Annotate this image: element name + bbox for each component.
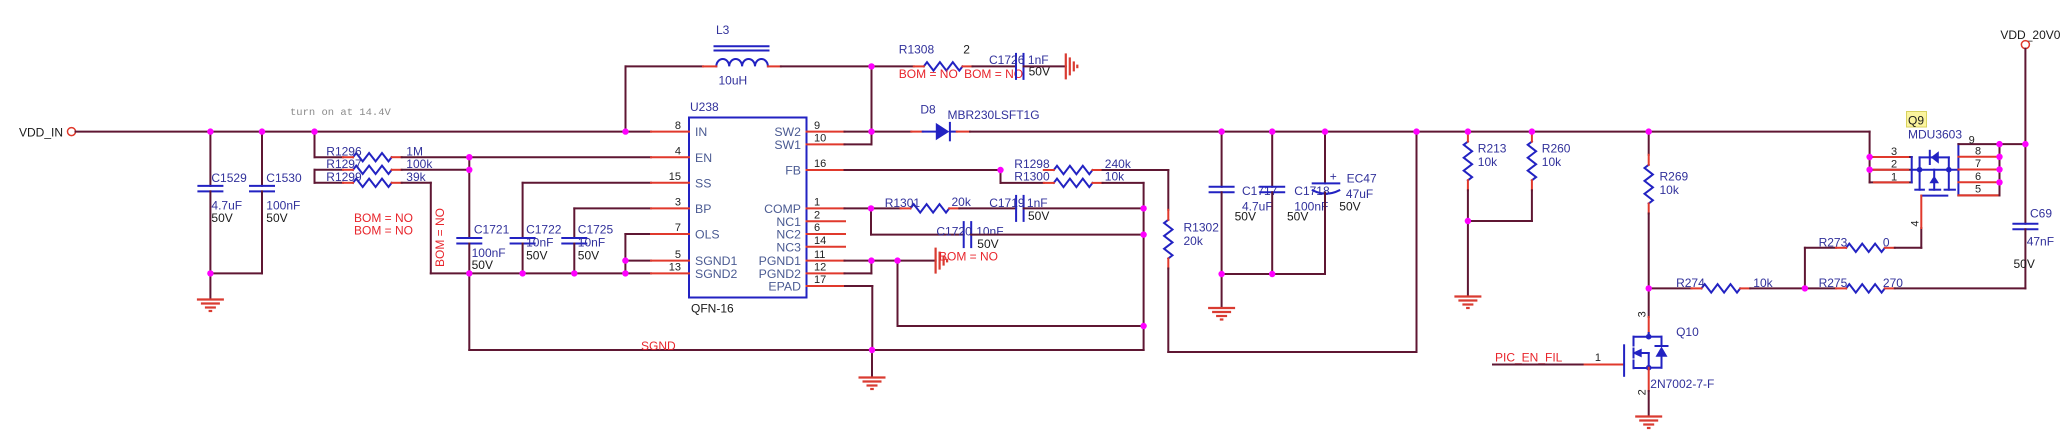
- svg-text:VDD_IN: VDD_IN: [19, 126, 63, 140]
- wire R1302 bottom to output sense: [1167, 269, 1169, 353]
- junction C1721 gnd: [466, 270, 472, 276]
- svg-text:SGND: SGND: [641, 339, 676, 353]
- svg-text:R1308: R1308: [899, 43, 935, 57]
- svg-text:C1529: C1529: [211, 171, 247, 185]
- transistor Q9 pin 1: [1870, 181, 1912, 183]
- svg-text:R269: R269: [1660, 169, 1689, 183]
- svg-text:1: 1: [814, 197, 820, 209]
- capacitor C1726: [973, 65, 1017, 67]
- junction C1717 gnd: [1218, 271, 1224, 277]
- svg-text:C1721: C1721: [474, 223, 510, 237]
- wire rail up to L3: [625, 66, 627, 131]
- resistor R260: [1528, 142, 1536, 181]
- ground R213: [1467, 221, 1469, 297]
- junction rail-C1530: [259, 128, 265, 134]
- wire VDD_20V0 down: [2024, 49, 2026, 224]
- svg-text:R213: R213: [1478, 141, 1507, 155]
- svg-text:50V: 50V: [526, 249, 547, 263]
- junction COMP: [868, 205, 874, 211]
- svg-text:6: 6: [814, 222, 820, 234]
- pin 12 PGND2: [807, 272, 845, 274]
- svg-text:R260: R260: [1542, 141, 1571, 155]
- svg-text:EC47: EC47: [1347, 172, 1377, 186]
- junction C1719-SGND: [1140, 205, 1146, 211]
- svg-text:SW1: SW1: [774, 138, 801, 152]
- svg-text:12: 12: [814, 262, 826, 274]
- pin 10 SW1: [807, 143, 845, 145]
- svg-text:OLS: OLS: [695, 228, 720, 242]
- transistor Q9 mosfet symbol: [1912, 169, 1959, 171]
- svg-text:14: 14: [814, 235, 826, 247]
- junction VDD vertical: [2022, 141, 2028, 147]
- inductor L3: [715, 45, 769, 47]
- transistor Q9 drain bar: [1957, 144, 1959, 195]
- svg-text:C1726: C1726: [989, 53, 1025, 67]
- svg-text:2: 2: [1637, 389, 1649, 395]
- junction: [1646, 128, 1652, 134]
- svg-text:R274: R274: [1676, 276, 1705, 290]
- wire R275 to C69 bottom: [1895, 287, 2026, 289]
- transistor Q9 pin 3: [1870, 156, 1912, 158]
- capacitor C1719: [959, 207, 1016, 209]
- junction rail-C1529: [207, 128, 213, 134]
- svg-text:1: 1: [1595, 352, 1601, 364]
- junction C1725 gnd: [571, 270, 577, 276]
- svg-text:10k: 10k: [1478, 155, 1498, 169]
- svg-text:FB: FB: [785, 164, 801, 178]
- highlight Q9 designator: [1907, 112, 1927, 128]
- svg-text:C1722: C1722: [526, 223, 562, 237]
- svg-text:BOM = NO: BOM = NO: [964, 67, 1023, 81]
- junction: [1218, 128, 1224, 134]
- transistor Q9 source bar: [1911, 157, 1913, 182]
- junction R274-R275-R273: [1802, 285, 1808, 291]
- transistor Q10: [1585, 364, 1624, 366]
- pin 17 EPAD: [807, 285, 846, 287]
- resistor R1296: [314, 132, 316, 158]
- resistor R269: [1648, 132, 1650, 155]
- svg-text:7: 7: [1975, 158, 1981, 170]
- junction Q9 bus pin9: [1996, 141, 2002, 147]
- junction R213 gnd: [1465, 218, 1471, 224]
- pin 13 SGND2: [651, 272, 689, 274]
- ground Q10: [1635, 415, 1662, 417]
- svg-text:50V: 50V: [578, 249, 599, 263]
- junction Q9 bus pin6: [1996, 179, 2002, 185]
- svg-text:MBR230LSFT1G: MBR230LSFT1G: [948, 108, 1040, 122]
- junction SGND2-ground rail: [622, 270, 628, 276]
- svg-text:VDD_20V0: VDD_20V0: [2000, 28, 2060, 42]
- pin 3 BP: [651, 207, 689, 209]
- wire COMP node: [845, 207, 901, 209]
- transistor Q9 right box pins: [1958, 143, 1999, 145]
- junction rail-sense: [1413, 128, 1419, 134]
- resistor R1301: [911, 204, 950, 212]
- svg-text:16: 16: [814, 158, 826, 170]
- wire SS net: [523, 182, 651, 184]
- junction SGND vertical-link: [1140, 323, 1146, 329]
- wire FB to divider: [845, 169, 1001, 171]
- wire SW2 to node: [845, 131, 872, 133]
- svg-text:15: 15: [669, 171, 681, 183]
- svg-text:BOM = NO: BOM = NO: [433, 208, 447, 267]
- junction C1529 ground: [207, 270, 213, 276]
- svg-text:10k: 10k: [1660, 183, 1680, 197]
- svg-text:50V: 50V: [2014, 257, 2035, 271]
- svg-text:2N7002-7-F: 2N7002-7-F: [1650, 377, 1714, 391]
- wire BP net: [574, 207, 651, 209]
- wire R274 to R275: [1750, 287, 1836, 289]
- svg-text:2: 2: [963, 43, 970, 57]
- svg-text:10k: 10k: [1105, 170, 1125, 184]
- junction R269-R274-Q10: [1646, 285, 1652, 291]
- svg-text:PIC_EN_FIL: PIC_EN_FIL: [1495, 351, 1563, 365]
- svg-text:10nF: 10nF: [976, 224, 1003, 238]
- wire PGND2 tie: [845, 272, 872, 274]
- wire OLS to SGND: [625, 233, 651, 235]
- svg-text:9: 9: [1969, 134, 1975, 146]
- pin 16 FB: [807, 169, 845, 171]
- wire EPAD to ground: [845, 285, 872, 287]
- svg-text:8: 8: [675, 120, 681, 132]
- resistor R1302: [1167, 170, 1169, 210]
- svg-text:Q9: Q9: [1908, 114, 1924, 128]
- svg-text:C1720: C1720: [936, 224, 972, 238]
- wire R1297-R1299 left tie: [314, 170, 316, 183]
- junction Q9 bus pin8: [1996, 154, 2002, 160]
- capacitor C1720: [870, 208, 872, 234]
- svg-text:10: 10: [814, 133, 826, 145]
- pin 15 SS: [651, 182, 689, 184]
- svg-text:MDU3603: MDU3603: [1908, 128, 1962, 142]
- capacitor C69: [2013, 223, 2037, 225]
- svg-text:50V: 50V: [266, 211, 287, 225]
- wire SW1 to node: [845, 143, 872, 145]
- junction SW node: [868, 128, 874, 134]
- junction PGND1-b: [894, 257, 900, 263]
- svg-text:R1301: R1301: [885, 196, 921, 210]
- junction: [1269, 128, 1275, 134]
- capacitor C1725: [573, 208, 575, 238]
- wire output rail: [970, 131, 1870, 133]
- svg-text:+: +: [1330, 170, 1337, 184]
- svg-text:47nF: 47nF: [2027, 234, 2054, 248]
- wire C1726 to ground: [1024, 65, 1066, 67]
- svg-text:11: 11: [814, 249, 825, 261]
- svg-text:4: 4: [1910, 220, 1922, 226]
- capacitor C1717: [1221, 132, 1223, 187]
- svg-text:6: 6: [1975, 171, 1981, 183]
- svg-text:1: 1: [1891, 171, 1897, 183]
- svg-text:5: 5: [675, 249, 681, 261]
- capacitor C1530: [261, 132, 263, 186]
- svg-text:R1299: R1299: [326, 170, 362, 184]
- wire EN node vertical: [468, 157, 470, 170]
- svg-text:17: 17: [814, 274, 826, 286]
- wire Q9 right bus: [1999, 144, 2001, 195]
- svg-text:D8: D8: [920, 103, 936, 117]
- svg-text:4: 4: [675, 145, 681, 157]
- capacitor C1529: [209, 132, 211, 186]
- svg-text:R273: R273: [1819, 235, 1848, 249]
- resistor R273: [1804, 248, 1806, 289]
- svg-text:R1300: R1300: [1014, 170, 1050, 184]
- transistor Q9 pin 2: [1870, 169, 1912, 171]
- junction: [1529, 128, 1535, 134]
- svg-text:20k: 20k: [1184, 234, 1204, 248]
- junction C1720-SGND: [1140, 231, 1146, 237]
- wire R213-R260 tie: [1468, 220, 1532, 222]
- svg-text:R275: R275: [1819, 276, 1848, 290]
- pin 11 PGND1: [807, 260, 845, 262]
- resistor R275: [1846, 284, 1885, 292]
- wire SGND1 net: [625, 260, 651, 262]
- resistor R1299: [315, 182, 344, 184]
- wire small-cap ground rail: [431, 272, 626, 274]
- svg-text:NC3: NC3: [776, 240, 801, 254]
- wire rail to Q9 left bus: [1869, 132, 1871, 183]
- wire SGND2 net: [625, 272, 651, 274]
- svg-text:U238: U238: [690, 100, 719, 114]
- op-amp U238 body: [689, 118, 807, 298]
- capacitor C1722: [522, 183, 524, 238]
- svg-text:C1725: C1725: [578, 223, 614, 237]
- ground input caps: [209, 273, 211, 299]
- svg-text:10nF: 10nF: [526, 236, 553, 250]
- junction EN-R1296: [466, 154, 472, 160]
- svg-text:10nF: 10nF: [578, 236, 605, 250]
- svg-text:7: 7: [675, 222, 681, 234]
- svg-text:BP: BP: [695, 202, 711, 216]
- svg-text:R1302: R1302: [1184, 221, 1220, 235]
- svg-text:3: 3: [675, 197, 681, 209]
- svg-text:3: 3: [1637, 311, 1649, 317]
- resistor R213: [1464, 142, 1472, 181]
- pin 8 IN: [651, 131, 689, 133]
- svg-text:50V: 50V: [1339, 200, 1360, 214]
- pin 5 SGND1: [651, 260, 689, 262]
- svg-text:BOM = NO: BOM = NO: [354, 223, 413, 237]
- junction rail-Rdivider: [311, 128, 317, 134]
- junction Q9 pin2: [1866, 167, 1872, 173]
- wire R273 to Q9 gate: [1895, 247, 1922, 249]
- wire SGND rail: [469, 349, 1143, 351]
- svg-text:9: 9: [814, 120, 820, 132]
- svg-text:50V: 50V: [1287, 209, 1308, 223]
- junction: [1322, 128, 1328, 134]
- svg-text:5: 5: [1975, 184, 1981, 196]
- svg-text:2: 2: [814, 209, 820, 221]
- capacitor EC47 electrolytic: [1324, 132, 1326, 184]
- wire R1296-EN: [402, 156, 651, 158]
- wire R1299 to ground rail: [402, 182, 431, 184]
- wire PGND1: [845, 260, 872, 262]
- junction: [1465, 128, 1471, 134]
- svg-text:IN: IN: [695, 125, 707, 139]
- svg-text:EN: EN: [695, 151, 712, 165]
- svg-text:2: 2: [1891, 159, 1897, 171]
- resistor R1298: [1054, 166, 1093, 174]
- resistor R274: [1649, 287, 1692, 289]
- svg-text:50V: 50V: [211, 211, 232, 225]
- wire R1300 to SGND vertical: [1103, 182, 1144, 184]
- pin 6 NC2: [807, 233, 846, 235]
- wire VDD_IN rail: [76, 131, 652, 133]
- wire L3 to SW node: [781, 65, 872, 67]
- svg-text:turn on at 14.4V: turn on at 14.4V: [290, 107, 392, 119]
- wire Q10 source to ground: [1648, 368, 1650, 391]
- wire C1721 down to SGND rail: [468, 273, 470, 350]
- svg-text:50V: 50V: [1028, 209, 1049, 223]
- svg-text:50V: 50V: [1235, 209, 1256, 223]
- svg-text:SGND2: SGND2: [695, 267, 738, 281]
- ground output caps: [1221, 274, 1223, 308]
- junction EN-R1297: [466, 167, 472, 173]
- pin 1 COMP: [807, 207, 845, 209]
- svg-text:13: 13: [669, 262, 681, 274]
- transistor Q9 gate lead pin 4: [1920, 196, 1922, 228]
- svg-text:QFN-16: QFN-16: [691, 302, 734, 316]
- wire output caps ground tie: [1222, 273, 1325, 275]
- ground U238: [871, 350, 873, 378]
- svg-text:SS: SS: [695, 176, 711, 190]
- svg-text:0: 0: [1883, 235, 1890, 249]
- wire PIC_EN_FIL: [1493, 364, 1585, 366]
- resistor R1308: [872, 65, 914, 67]
- svg-text:Q10: Q10: [1676, 325, 1699, 339]
- svg-text:BOM = NO: BOM = NO: [899, 67, 958, 81]
- wire C1529-C1530 ground tie: [210, 272, 262, 274]
- svg-text:R1297: R1297: [326, 157, 362, 171]
- capacitor C1721: [468, 170, 470, 238]
- svg-text:50V: 50V: [472, 258, 493, 272]
- svg-text:8: 8: [1975, 145, 1981, 157]
- resistor R1300: [1000, 170, 1002, 183]
- junction Q9 bus pin7: [1996, 166, 2002, 172]
- wire Q9 to VDD vertical: [2000, 143, 2026, 145]
- junction PGND1-a: [868, 257, 874, 263]
- pin 4 EN: [651, 156, 689, 158]
- svg-text:C1719: C1719: [989, 196, 1025, 210]
- ground sideways BOM PGND: [934, 248, 936, 274]
- capacitor C1718: [1271, 132, 1273, 187]
- junction rail-L3: [622, 128, 628, 134]
- svg-text:C1530: C1530: [266, 171, 302, 185]
- pin 7 OLS: [651, 233, 689, 235]
- svg-text:10k: 10k: [1542, 155, 1562, 169]
- junction C1718 gnd: [1269, 271, 1275, 277]
- svg-text:L3: L3: [716, 23, 730, 37]
- junction FB node: [997, 167, 1003, 173]
- wire PGND link to SGND net: [897, 261, 899, 326]
- junction L3-R1308-SW: [868, 63, 874, 69]
- svg-text:10uH: 10uH: [719, 74, 748, 88]
- wire PGND1 to optional ground: [898, 260, 936, 262]
- diode D8: [872, 131, 912, 133]
- junction SGND1: [622, 257, 628, 263]
- pin 9 SW2: [807, 131, 845, 133]
- svg-text:EPAD: EPAD: [768, 280, 801, 294]
- svg-text:3: 3: [1891, 146, 1897, 158]
- resistor R1297: [315, 169, 344, 171]
- ground sideways C1726: [1065, 53, 1067, 79]
- svg-text:BOM = NO: BOM = NO: [939, 249, 998, 263]
- pin 14 NC3: [807, 246, 846, 248]
- junction Q9 pin3: [1866, 154, 1872, 160]
- svg-text:C69: C69: [2030, 207, 2052, 221]
- svg-text:20k: 20k: [952, 195, 972, 209]
- pin 2 NC1: [807, 220, 846, 222]
- junction EPAD-SGND rail: [869, 347, 875, 353]
- junction C1722 gnd: [519, 270, 525, 276]
